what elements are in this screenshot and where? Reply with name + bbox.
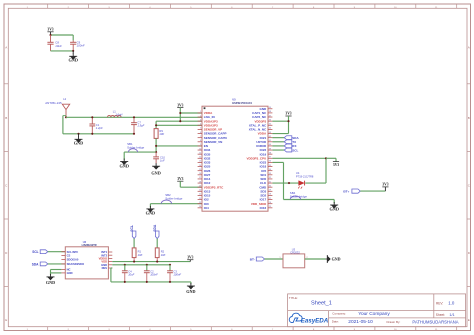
- svg-text:32: 32: [269, 177, 271, 179]
- svg-text:ESP32-PICO-D4: ESP32-PICO-D4: [232, 101, 252, 105]
- capacitor C1: [89, 117, 103, 134]
- solder bridge SB2: [150, 193, 202, 208]
- svg-text:7: 7: [200, 136, 201, 138]
- svg-text:SDO/SA0: SDO/SA0: [67, 258, 79, 262]
- svg-text:3V3: 3V3: [47, 28, 53, 32]
- junction dots R1 R2 on VDD rail: [133, 261, 158, 263]
- svg-text:GND: GND: [151, 171, 160, 176]
- U5 right pin names: [247, 107, 268, 210]
- wire U2 NC/GND to ground: [51, 270, 62, 276]
- junction dot GND rail tap: [77, 133, 79, 135]
- svg-text:GND: GND: [146, 210, 155, 215]
- ground (SB1): [119, 159, 128, 169]
- svg-text:REV:: REV:: [436, 302, 443, 306]
- net flag SDA (accel): [32, 262, 48, 266]
- svg-text:Date:: Date:: [332, 320, 339, 324]
- capacitor C10: [153, 152, 165, 163]
- U2 right pins: [99, 250, 113, 270]
- svg-text:B: B: [5, 116, 7, 120]
- capacitor C8: [47, 35, 62, 51]
- svg-text:28: 28: [269, 194, 271, 196]
- svg-text:10K: 10K: [161, 253, 166, 257]
- svg-text:NC: NC: [67, 268, 71, 272]
- svg-text:26: 26: [269, 202, 271, 204]
- svg-text:3V3: 3V3: [187, 255, 193, 259]
- wire 3V3 to VDD3 and VDDA: [272, 116, 288, 134]
- power flag 3V3 (VDDA supply): [177, 103, 183, 107]
- svg-text:3V3: 3V3: [333, 163, 339, 167]
- accelerometer U2 LIS2DH12TR body: [65, 241, 108, 279]
- svg-text:1/1: 1/1: [449, 313, 454, 317]
- svg-text:SCL: SCL: [32, 250, 38, 254]
- svg-text:19: 19: [199, 185, 201, 187]
- svg-text:SDA/SDI/SDO: SDA/SDI/SDO: [67, 262, 84, 266]
- svg-text:47: 47: [269, 115, 271, 117]
- net flag SDA: [272, 136, 299, 140]
- svg-text:25: 25: [269, 206, 271, 208]
- junction dot at GND node: [72, 50, 74, 52]
- svg-text:5: 5: [200, 128, 201, 130]
- svg-text:IO4: IO4: [204, 206, 209, 210]
- svg-text:2021-05-10: 2021-05-10: [348, 319, 373, 325]
- svg-text:1.6nH: 1.6nH: [115, 112, 122, 116]
- title block Date row: [332, 319, 459, 325]
- junction dot R9 top: [155, 124, 157, 126]
- svg-text:27: 27: [269, 198, 271, 200]
- svg-text:10K: 10K: [159, 132, 164, 136]
- svg-text:8: 8: [200, 140, 201, 142]
- junction dot antenna feed: [65, 116, 67, 118]
- svg-text:Solder bridge: Solder bridge: [127, 146, 145, 150]
- capacitor C4: [122, 265, 135, 282]
- svg-text:3V3: 3V3: [382, 183, 388, 187]
- net flag TX: [272, 140, 296, 144]
- svg-text:SCL/SPC: SCL/SPC: [67, 250, 79, 254]
- svg-text:Sheet_1: Sheet_1: [311, 300, 332, 306]
- net flag BT-: [250, 257, 265, 262]
- capacitor C2: [144, 265, 158, 282]
- svg-text:23: 23: [199, 202, 201, 204]
- svg-text:38: 38: [269, 152, 271, 154]
- svg-text:41: 41: [269, 140, 271, 142]
- ground (C10): [151, 163, 160, 175]
- svg-text:GND: GND: [74, 141, 83, 146]
- svg-text:1uF: 1uF: [160, 159, 165, 163]
- svg-text:12: 12: [199, 157, 201, 159]
- svg-text:GND: GND: [46, 280, 55, 285]
- ground (battery, rotated): [326, 255, 341, 263]
- svg-text:IO16: IO16: [260, 206, 267, 210]
- svg-text:31: 31: [269, 181, 271, 183]
- svg-text:13: 13: [199, 161, 201, 163]
- antenna L2 ANT051-245: [45, 97, 69, 117]
- net flag RX: [272, 144, 296, 148]
- wire lower GND rail: [63, 133, 134, 135]
- svg-text:40: 40: [269, 144, 271, 146]
- junction dot VDD3: [287, 120, 289, 122]
- svg-text:Company:: Company:: [332, 312, 346, 316]
- wire to VDDA3P3 pin 2: [156, 121, 202, 128]
- svg-text:1.0: 1.0: [448, 301, 455, 306]
- wire C8 bottom to GND node: [51, 50, 74, 52]
- net flag SCL (accel): [32, 250, 48, 254]
- U2 left pins: [61, 250, 84, 275]
- junction dots cap taps: [124, 264, 171, 266]
- wire to VDDA3P3 pin 1: [156, 120, 202, 122]
- resistor R2: [155, 248, 165, 262]
- wire BT- to U3 pin 1: [265, 257, 284, 259]
- svg-text:1.5pF: 1.5pF: [137, 124, 144, 128]
- op-amp U5 ESP32-PICO-D4 body: [202, 98, 268, 211]
- svg-text:42: 42: [269, 136, 271, 138]
- wire 3V3 to VDD3P3_RTC: [180, 181, 202, 187]
- wire to VDDA pin: [180, 112, 202, 114]
- svg-text:49: 49: [269, 107, 271, 109]
- svg-text:GND: GND: [329, 207, 338, 212]
- capacitor C9: [70, 40, 85, 51]
- junction dot VDDA: [179, 112, 181, 114]
- svg-text:4: 4: [200, 124, 201, 126]
- svg-text:E: E: [468, 318, 470, 322]
- U5 left pin names: [204, 111, 227, 210]
- svg-text:Your Company: Your Company: [358, 311, 390, 317]
- junction dot IO23 node: [325, 157, 327, 159]
- svg-text:33: 33: [269, 173, 271, 175]
- wire 3V3 node to C9 branch: [51, 35, 74, 40]
- junction dot LED row: [288, 182, 290, 184]
- svg-text:PATHUMSUDARSHANA: PATHUMSUDARSHANA: [412, 319, 458, 324]
- wire U3 pin 2 to GND: [305, 257, 326, 259]
- svg-text:ANT051-245: ANT051-245: [45, 101, 62, 105]
- svg-text:TITLE:: TITLE:: [289, 296, 298, 300]
- ground (accel caps): [186, 283, 195, 294]
- junction dots bottom rail: [124, 281, 171, 283]
- svg-text:100nF: 100nF: [150, 273, 158, 277]
- svg-text:29: 29: [269, 190, 271, 192]
- svg-text:GND: GND: [119, 163, 128, 168]
- svg-text:100nF: 100nF: [173, 273, 181, 277]
- svg-text:16: 16: [199, 173, 201, 175]
- power flag 3V3 (BT+): [382, 183, 388, 187]
- svg-text:14: 14: [199, 165, 201, 167]
- svg-text:E: E: [5, 318, 7, 322]
- svg-text:EasyEDA: EasyEDA: [301, 318, 329, 325]
- wire R9 bottom to EN: [156, 138, 202, 152]
- wire INT1 flag to R1: [133, 239, 135, 248]
- svg-text:3V3: 3V3: [285, 112, 291, 116]
- svg-text:44: 44: [269, 128, 271, 130]
- power flag 3V3 (LED anode): [326, 158, 339, 167]
- svg-text:BT-: BT-: [250, 258, 255, 262]
- resistor R9: [154, 129, 164, 139]
- junction dot EN node: [155, 145, 157, 147]
- svg-text:22: 22: [199, 198, 201, 200]
- junction dots C7: [133, 116, 135, 135]
- svg-text:1: 1: [200, 111, 201, 113]
- svg-text:3V3: 3V3: [177, 177, 183, 181]
- svg-text:10K: 10K: [138, 253, 143, 257]
- svg-text:15: 15: [199, 169, 201, 171]
- wire SCL to U2: [48, 251, 66, 253]
- svg-text:10uF: 10uF: [128, 273, 134, 277]
- power flag 3V3 (accel): [187, 255, 193, 261]
- svg-text:34: 34: [269, 169, 271, 171]
- ground (U2): [46, 274, 55, 285]
- svg-text:3: 3: [200, 119, 201, 121]
- inductor L1: [108, 109, 123, 117]
- net flag BT+: [343, 189, 360, 194]
- junction dot SB1 node: [155, 151, 157, 153]
- svg-text:Solder bridge: Solder bridge: [290, 195, 308, 199]
- svg-text:46: 46: [269, 119, 271, 121]
- svg-text:18: 18: [199, 181, 201, 183]
- net flag SCL: [272, 148, 298, 152]
- svg-text:GND: GND: [68, 58, 77, 63]
- power flag 3V3 (RTC): [177, 177, 183, 181]
- wire antenna ground stub: [63, 116, 66, 134]
- svg-text:37: 37: [269, 157, 271, 159]
- wire VDD rail to 3V3: [112, 261, 190, 263]
- wire RF rail to LNA_IN: [66, 116, 202, 118]
- svg-text:100nF: 100nF: [77, 44, 85, 48]
- svg-text:2: 2: [200, 115, 201, 117]
- svg-text:LIS2DH12TR: LIS2DH12TR: [82, 244, 97, 247]
- wire IO23 to LED loop: [272, 158, 326, 183]
- svg-text:CR2032: CR2032: [290, 250, 300, 254]
- wire GND-pin rail: [112, 264, 170, 266]
- wire LED bottom row: [272, 182, 326, 184]
- resistor R1: [132, 248, 142, 262]
- svg-text:36: 36: [269, 161, 271, 163]
- title block frame: [288, 294, 466, 327]
- svg-text:1: 1: [280, 257, 281, 259]
- svg-text:U4: U4: [296, 171, 300, 175]
- svg-text:L2: L2: [63, 97, 66, 101]
- net flag SCL (vertical, pull-up): [130, 225, 136, 239]
- svg-text:24: 24: [199, 206, 201, 208]
- svg-text:21: 21: [199, 194, 201, 196]
- capacitor C3: [167, 265, 181, 282]
- svg-text:CS: CS: [67, 254, 71, 258]
- svg-text:SCL: SCL: [292, 148, 298, 152]
- junction dots C1: [91, 116, 93, 135]
- svg-text:A: A: [468, 46, 470, 50]
- wire INT2 flag to R2: [156, 239, 158, 248]
- U5 right pin stubs and pin numbers: [268, 107, 272, 208]
- junction dot VDDA3P3: [179, 120, 181, 122]
- ground (RF network): [74, 134, 83, 146]
- svg-text:20: 20: [199, 190, 201, 192]
- LED U4: [296, 171, 314, 189]
- svg-text:17: 17: [199, 177, 201, 179]
- power flag 3V3 (top-left): [47, 28, 53, 36]
- wire bottom GND rail (accel): [111, 268, 191, 284]
- svg-text:Solder bridge: Solder bridge: [165, 196, 183, 200]
- svg-text:10uF: 10uF: [55, 44, 62, 48]
- net flag SDA (vertical, pull-up): [153, 224, 159, 239]
- svg-text:11: 11: [199, 152, 201, 154]
- svg-text:GND: GND: [332, 257, 341, 262]
- svg-text:10: 10: [199, 148, 201, 150]
- wire SDA to U2: [48, 263, 66, 265]
- battery holder U3: [283, 247, 305, 267]
- svg-text:RES: RES: [102, 266, 108, 270]
- svg-text:9: 9: [200, 144, 201, 146]
- ground (SB2): [146, 206, 155, 216]
- svg-text:45: 45: [269, 124, 271, 126]
- svg-text:BT+: BT+: [343, 190, 349, 194]
- svg-text:B: B: [468, 116, 470, 120]
- wire 3V3 stem down: [179, 108, 181, 122]
- capacitor C7: [131, 117, 145, 134]
- svg-text:39: 39: [269, 148, 271, 150]
- junction dot at 3V3 node: [49, 34, 51, 36]
- EasyEDA logo: [289, 313, 329, 324]
- svg-text:30: 30: [269, 185, 271, 187]
- svg-text:Drawn By:: Drawn By:: [387, 320, 401, 324]
- U5 left pin stubs and pin numbers: [198, 111, 202, 208]
- svg-text:3V3: 3V3: [177, 103, 183, 107]
- svg-text:A: A: [5, 46, 7, 50]
- svg-text:6: 6: [200, 132, 201, 134]
- svg-text:GND: GND: [67, 271, 73, 275]
- ground (SB4): [329, 202, 338, 212]
- svg-text:GND: GND: [186, 289, 195, 294]
- solder bridge SB4: [272, 162, 334, 203]
- title block Sheet: [436, 313, 455, 317]
- svg-text:48: 48: [269, 111, 271, 113]
- svg-text:35: 35: [269, 165, 271, 167]
- title block Company row: [332, 311, 390, 317]
- title block REV: [436, 301, 455, 306]
- svg-text:43: 43: [269, 132, 271, 134]
- power flag 3V3 (VDD3 loop): [285, 112, 291, 116]
- svg-text:Sheet:: Sheet:: [436, 313, 445, 317]
- svg-text:2: 2: [307, 257, 308, 259]
- svg-text:PT19-21C/TR8: PT19-21C/TR8: [296, 174, 314, 178]
- solder bridge SB1: [124, 142, 156, 160]
- wire BT+ to 3V3: [360, 187, 385, 191]
- svg-text:1.2pF: 1.2pF: [96, 126, 103, 130]
- ground (top-left): [68, 51, 77, 63]
- svg-text:SDA: SDA: [32, 262, 39, 266]
